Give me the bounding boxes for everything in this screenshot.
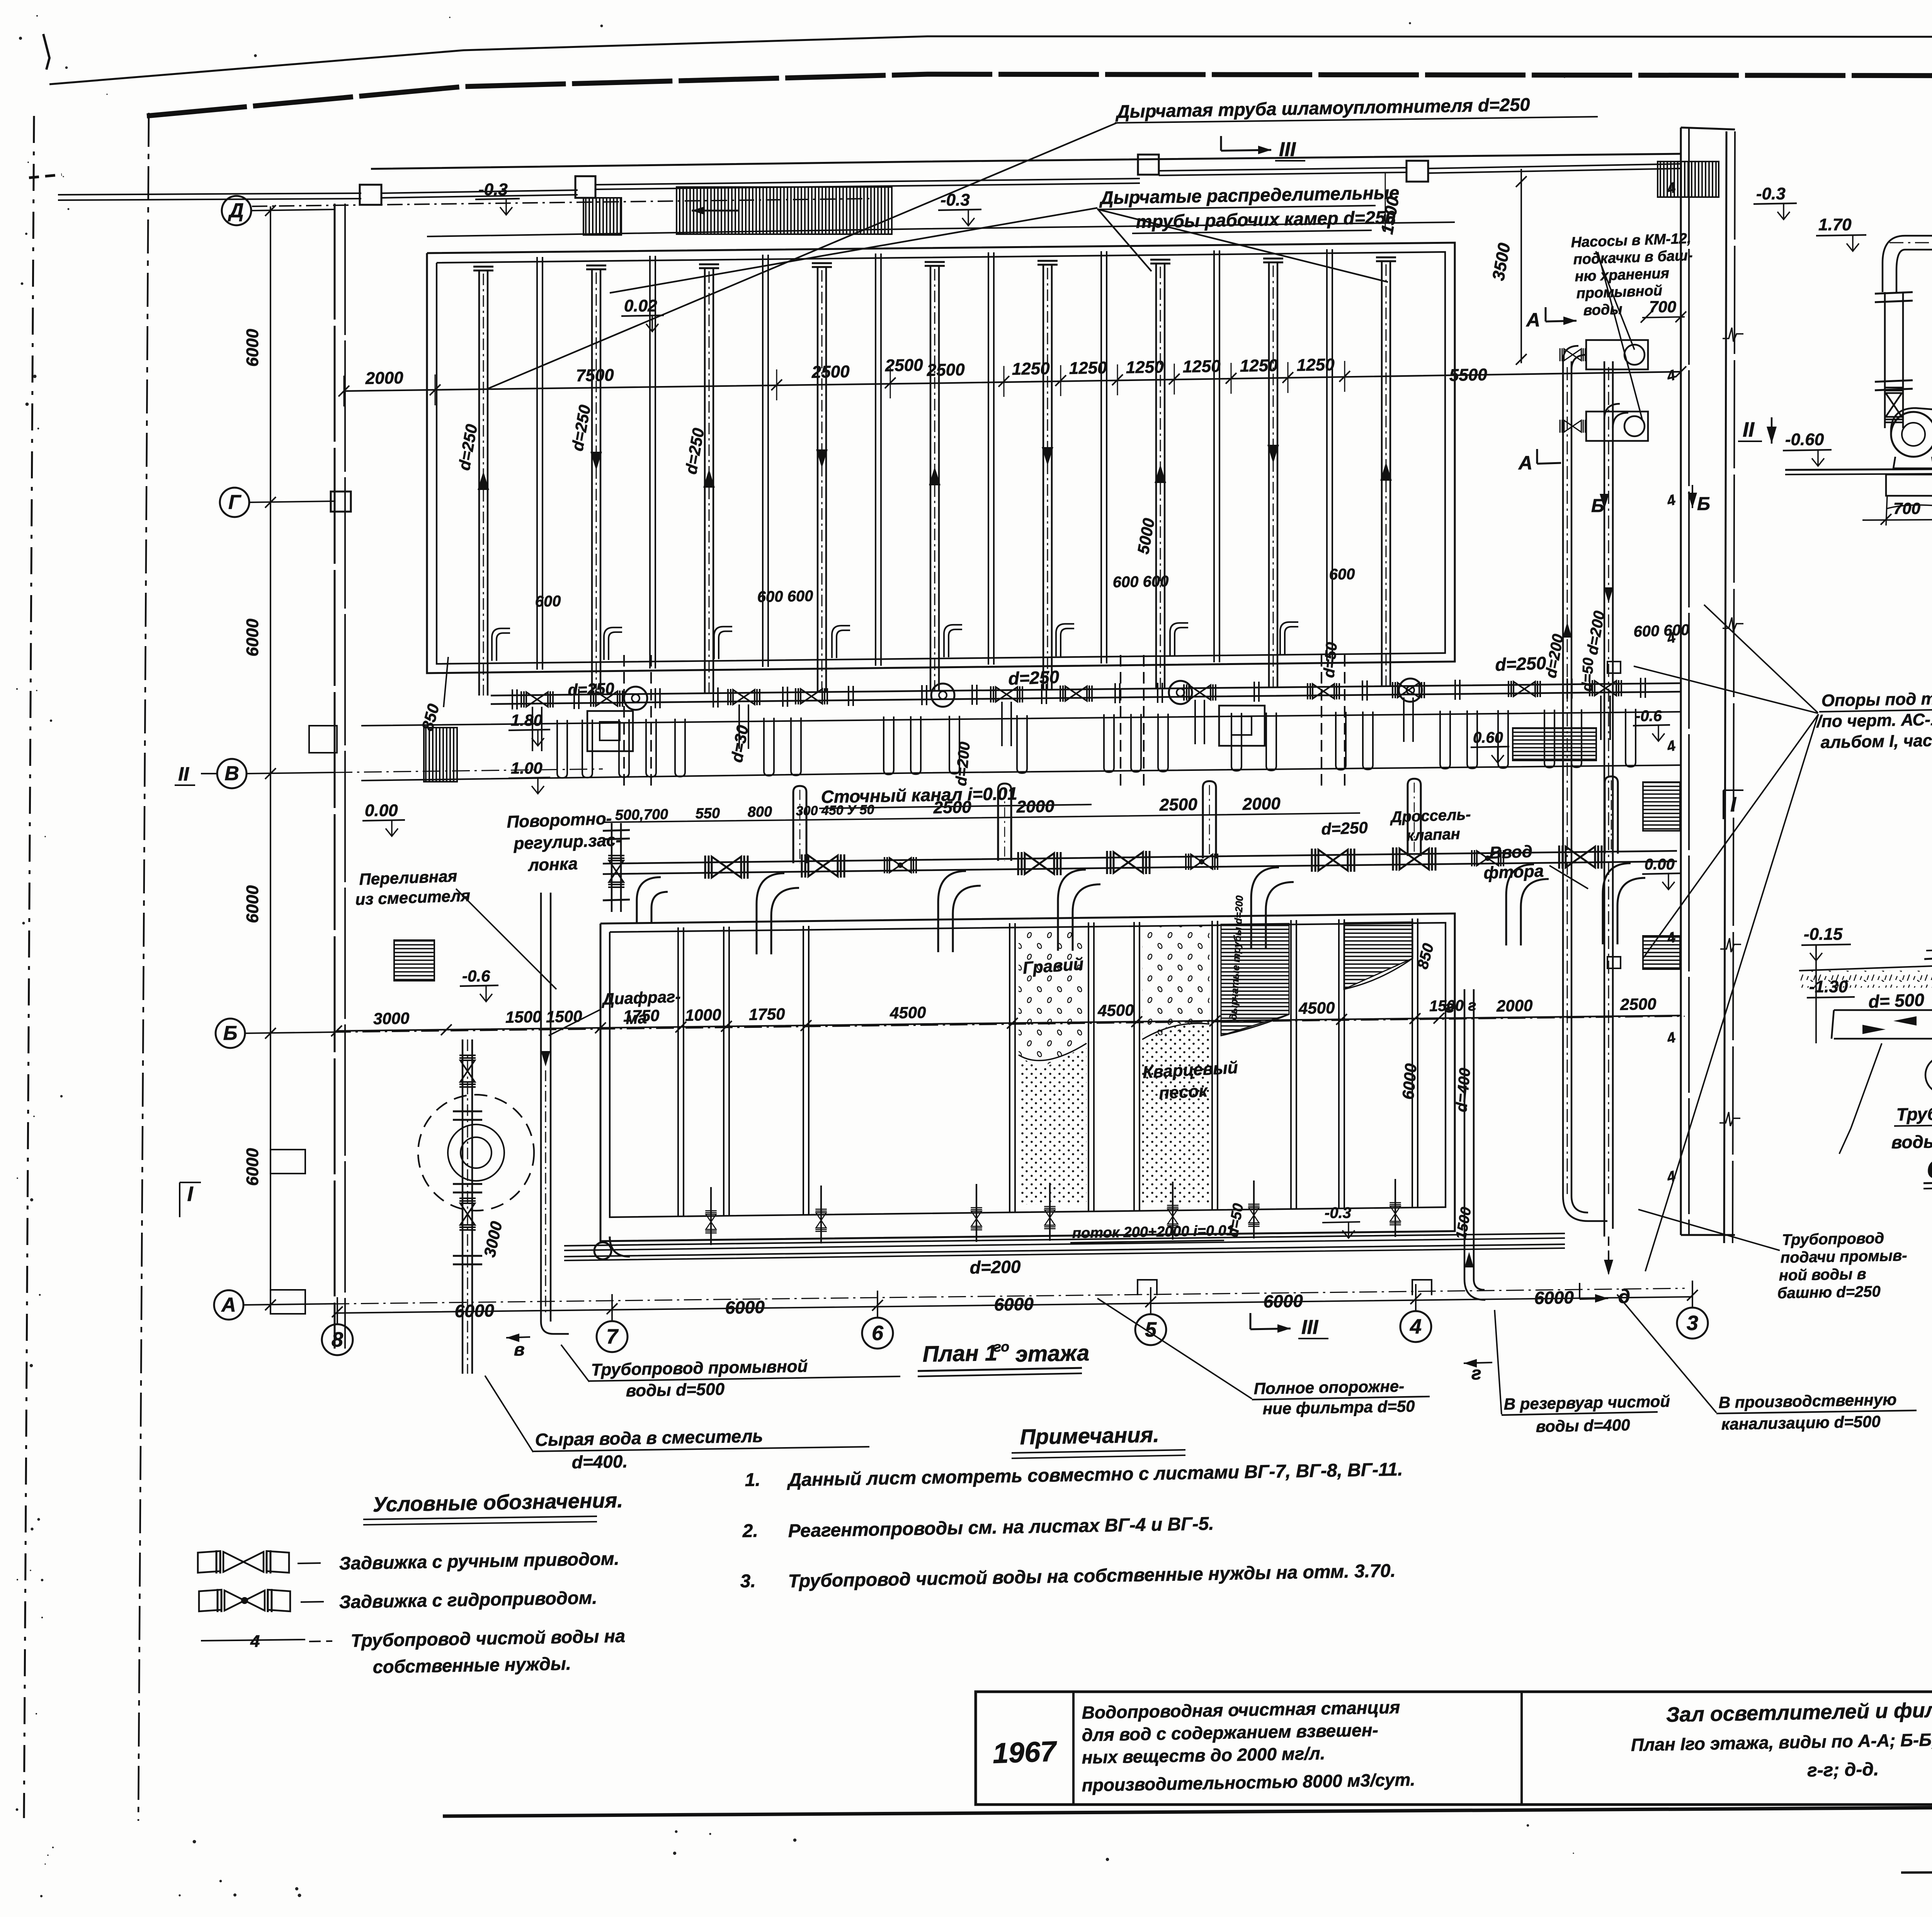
svg-text:2500: 2500 xyxy=(811,362,850,382)
svg-text:2500: 2500 xyxy=(1159,795,1197,815)
svg-text:600: 600 xyxy=(535,593,561,610)
svg-text:1500: 1500 xyxy=(505,1007,542,1026)
valve on row1 x=1390 xyxy=(521,691,553,708)
svg-text:1967: 1967 xyxy=(992,1735,1058,1769)
riser pipe d=250 cell 4 xyxy=(817,267,819,692)
upper bank lane divider 7 xyxy=(1213,250,1215,662)
svg-text:в: в xyxy=(514,1339,525,1359)
row2 left elbow into bank xyxy=(637,877,668,924)
lower bank divider x=1762 xyxy=(677,927,679,1216)
вид А-А left riser xyxy=(1884,292,1886,428)
valve on row1 x=2605 xyxy=(991,686,1022,703)
pipe coupling box 3 xyxy=(1138,155,1159,175)
svg-text:600 600: 600 600 xyxy=(1633,621,1690,640)
svg-text:Условные обозначения.: Условные обозначения. xyxy=(372,1489,623,1516)
bottom elbows of d200 pipes xyxy=(1563,1196,1607,1221)
axis В extension xyxy=(247,769,603,774)
riser pipe d=250 cell 2 xyxy=(591,269,593,694)
plan bottom wall segment xyxy=(1681,1234,1735,1236)
svg-text:3.: 3. xyxy=(740,1571,756,1592)
section mark III top xyxy=(1221,150,1271,151)
svg-text:В производственную: В производственную xyxy=(1718,1390,1897,1412)
svg-text:6000: 6000 xyxy=(243,329,262,367)
svg-text:В резервуар чистой: В резервуар чистой xyxy=(1503,1392,1670,1413)
svg-text:4500: 4500 xyxy=(1298,998,1335,1017)
small valves at filter bottoms xyxy=(705,1211,716,1233)
svg-text:-0.60: -0.60 xyxy=(1785,430,1824,449)
left protrusion box xyxy=(309,726,337,753)
svg-text:А: А xyxy=(221,1294,236,1316)
stair hatch right 3 xyxy=(1643,936,1680,969)
riser pipe d=250 cell 5 xyxy=(930,266,932,691)
axis Б long line xyxy=(245,1016,1685,1033)
axis Д line to plan xyxy=(252,199,869,206)
small wall boxes left xyxy=(270,1150,305,1174)
valve on row1 x=3645 xyxy=(1393,682,1424,698)
title block frame xyxy=(976,1692,1932,1805)
svg-text:0.60: 0.60 xyxy=(1473,729,1503,746)
stair hatch right 2 xyxy=(1643,782,1680,831)
svg-text:7500: 7500 xyxy=(576,366,614,385)
svg-text:Дроссель-: Дроссель- xyxy=(1389,806,1471,826)
hydraulic valve row2 x=3110 xyxy=(1186,854,1218,870)
legend clean water line symbol xyxy=(201,1640,305,1641)
вид А-А left volute xyxy=(1891,412,1932,457)
svg-text:4: 4 xyxy=(250,1632,260,1651)
svg-text:-0.6: -0.6 xyxy=(462,967,490,985)
svg-text:Трубопровод промывной: Трубопровод промывной xyxy=(591,1357,808,1379)
svg-text:700: 700 xyxy=(1893,499,1920,517)
stair hatch right 1 xyxy=(1513,728,1596,760)
svg-text:I: I xyxy=(187,1182,193,1206)
svg-text:d=50: d=50 xyxy=(1320,641,1340,679)
valve on row1 x=4155 xyxy=(1590,680,1621,696)
axis circle 5 xyxy=(1135,1314,1166,1345)
pump circle row1 x=1645 xyxy=(624,687,647,710)
lower bank divider x=2620 xyxy=(1009,923,1010,1212)
svg-text:Поворотно-: Поворотно- xyxy=(507,809,612,832)
svg-text:2500: 2500 xyxy=(926,360,965,380)
ventilation hatch block 1 xyxy=(583,198,621,235)
svg-text:Б: Б xyxy=(223,1022,238,1044)
pipe d400 down to reservoir xyxy=(1464,989,1466,1279)
svg-text:6000: 6000 xyxy=(243,885,262,923)
svg-text:1000: 1000 xyxy=(685,1005,721,1024)
svg-text:лонка: лонка xyxy=(527,854,578,875)
dim line row mid xyxy=(603,813,1360,822)
upper bank lane divider 8 xyxy=(1326,249,1328,661)
small elbow pipes at lane bottoms xyxy=(497,633,510,661)
svg-text:-0.3: -0.3 xyxy=(940,191,970,209)
pump1 top xyxy=(1586,340,1648,369)
svg-text:2500: 2500 xyxy=(933,798,971,817)
svg-text:канализацию d=500: канализацию d=500 xyxy=(1721,1412,1881,1433)
valve on row1 x=1570 xyxy=(591,691,622,707)
lower bank divider x=2942 xyxy=(1133,922,1135,1211)
svg-text:собственные нужды.: собственные нужды. xyxy=(372,1653,571,1677)
svg-text:воды d=400: воды d=400 xyxy=(1536,1416,1630,1436)
plan right pump-room inner wall xyxy=(1680,128,1682,1235)
svg-text:d=250: d=250 xyxy=(1321,818,1368,838)
svg-text:1.80: 1.80 xyxy=(511,711,543,729)
flanges left pipe xyxy=(453,1111,482,1112)
svg-text:d=250: d=250 xyxy=(568,679,615,699)
lateral pipes hatch cell D xyxy=(1344,922,1413,989)
elbow bottom left drain xyxy=(610,1237,630,1257)
svg-text:d= 500: d= 500 xyxy=(1868,990,1925,1012)
svg-text:Д: Д xyxy=(228,199,244,222)
svg-text:0.02: 0.02 xyxy=(624,296,657,315)
flange on vertical в-в xyxy=(1924,958,1932,959)
вид А-А foundations xyxy=(1886,475,1932,496)
riser pipe d=250 cell 7 xyxy=(1155,264,1157,689)
riser pipe d=250 cell 3 xyxy=(704,268,706,693)
bottom short line right xyxy=(1901,1869,1932,1873)
left vertical dimension line xyxy=(270,206,271,1305)
svg-text:d=200: d=200 xyxy=(969,1257,1021,1277)
pump circle row1 x=2440 xyxy=(931,684,954,707)
lower bank divider x=2086 xyxy=(803,926,804,1215)
axis circle 8 xyxy=(322,1324,353,1355)
svg-text:4500: 4500 xyxy=(889,1003,926,1022)
svg-text:III: III xyxy=(1279,138,1296,161)
support squares on pipe xyxy=(1607,662,1621,673)
riser pipe d=250 cell 6 xyxy=(1043,265,1044,690)
svg-text:ню хранения: ню хранения xyxy=(1575,265,1670,285)
plan right outer wall xyxy=(1724,131,1726,1243)
svg-text:6000: 6000 xyxy=(1263,1291,1303,1311)
svg-text:800: 800 xyxy=(747,804,772,820)
pump room pipes d=200 vertical xyxy=(1562,361,1564,1196)
svg-text:II: II xyxy=(1743,418,1755,441)
svg-text:Трубопровод промывной: Трубопровод промывной xyxy=(1896,1101,1932,1124)
svg-text:1.: 1. xyxy=(745,1470,760,1490)
lower bank divider x=3472 xyxy=(1338,919,1340,1208)
svg-text:ных веществ до 2000 мг/л.: ных веществ до 2000 мг/л. xyxy=(1082,1743,1325,1767)
manifold pipe row 1 xyxy=(491,683,1681,696)
svg-text:поток 200+2000 i=0.01: поток 200+2000 i=0.01 xyxy=(1072,1223,1235,1242)
svg-text:700: 700 xyxy=(1649,298,1676,316)
svg-text:этажа: этажа xyxy=(1015,1340,1090,1367)
svg-text:В: В xyxy=(224,762,239,785)
svg-text:4: 4 xyxy=(1410,1315,1422,1338)
svg-text:0.00: 0.00 xyxy=(1645,856,1675,873)
svg-text:го: го xyxy=(993,1339,1009,1355)
fine sand below gravel cell A xyxy=(1019,1045,1087,1204)
вид А-А foundation dims xyxy=(1862,519,1932,520)
upper bank dimension row xyxy=(344,372,1681,391)
svg-text:2.: 2. xyxy=(742,1521,758,1541)
drain channel bottom xyxy=(564,1233,1565,1246)
svg-text:d=400.: d=400. xyxy=(571,1451,628,1472)
svg-text:А: А xyxy=(1526,309,1540,331)
svg-text:6000: 6000 xyxy=(1534,1287,1574,1308)
pump circle row1 x=3650 xyxy=(1399,679,1422,702)
svg-text:1250: 1250 xyxy=(1240,356,1278,376)
svg-text:1.70: 1.70 xyxy=(1818,215,1852,234)
lower bank divider x=3662 xyxy=(1412,919,1413,1208)
fine sand cell B xyxy=(1142,1022,1209,1203)
svg-text:7: 7 xyxy=(606,1325,619,1348)
svg-text:4500: 4500 xyxy=(1097,1001,1134,1020)
wall line below row1 xyxy=(361,712,1681,726)
svg-text:2000: 2000 xyxy=(1242,794,1281,814)
top pipe from left xyxy=(58,193,361,195)
row2 dome stubs xyxy=(793,786,806,863)
svg-text:6000: 6000 xyxy=(243,619,262,657)
вид А-А left valve xyxy=(1885,388,1903,422)
svg-text:II: II xyxy=(178,763,189,785)
svg-text:2000: 2000 xyxy=(365,368,403,388)
upper bank lane divider 2 xyxy=(649,256,651,668)
svg-text:клапан: клапан xyxy=(1406,825,1461,844)
sheet border left dashed line 2 xyxy=(138,113,149,1821)
leader to sludge pipe xyxy=(488,123,1117,389)
valve on row1 x=3945 xyxy=(1509,681,1540,697)
svg-text:альбом I, часть III/: альбом I, часть III/ xyxy=(1820,730,1932,752)
pump2 xyxy=(1586,412,1648,441)
svg-text:Диафраг-: Диафраг- xyxy=(601,987,681,1008)
svg-text:6000: 6000 xyxy=(725,1297,765,1318)
valve on left pipe lower xyxy=(459,1198,476,1230)
III mark bottom xyxy=(1250,1313,1252,1329)
valve on left pipe upper xyxy=(459,1055,476,1087)
riser pipe d=250 cell 9 xyxy=(1381,261,1383,686)
svg-text:Ввод: Ввод xyxy=(1489,842,1533,862)
svg-text:-0.3: -0.3 xyxy=(1325,1204,1351,1221)
вид А-А left elbow xyxy=(1883,236,1905,292)
upper bank lane divider 3 xyxy=(762,255,764,667)
svg-text:III: III xyxy=(1301,1316,1319,1339)
axis circle 6 xyxy=(862,1318,893,1349)
svg-text:2000: 2000 xyxy=(1496,996,1533,1015)
svg-text:/по черт. АС-17.: /по черт. АС-17. xyxy=(1816,710,1932,731)
sheet border top thin xyxy=(49,36,1932,84)
svg-text:6000: 6000 xyxy=(243,1148,262,1186)
svg-text:Б: Б xyxy=(1697,494,1710,514)
leaders distribution pipes xyxy=(610,208,1097,293)
hydraulic valve row2 x=2330 xyxy=(884,857,916,873)
sheet border top heavy dashed xyxy=(147,74,1932,116)
upper bank outer rect xyxy=(427,243,1455,673)
svg-text:300 450 У 50: 300 450 У 50 xyxy=(796,802,874,818)
svg-text:башню d=250: башню d=250 xyxy=(1777,1283,1881,1302)
svg-text:Сырая вода в смеситель: Сырая вода в смеситель xyxy=(535,1426,763,1450)
svg-text:600 600: 600 600 xyxy=(1112,573,1168,591)
axis Г wall box xyxy=(331,492,351,512)
pipe coupling box xyxy=(360,185,381,205)
lateral pipes hatch cell C xyxy=(1221,924,1289,1036)
ventilation hatch block 2 with arrow xyxy=(677,187,892,234)
valve on row1 x=2100 xyxy=(796,688,827,704)
svg-text:Опоры под трубу: Опоры под трубу xyxy=(1821,689,1932,710)
svg-text:План 1: План 1 xyxy=(922,1340,998,1367)
box-in-box symbol 1 xyxy=(587,711,633,751)
svg-text:2000: 2000 xyxy=(1016,797,1054,816)
legend valve manual symbol xyxy=(198,1550,289,1573)
plan left wall axis 8 xyxy=(334,204,336,1349)
upper bank lane divider 4 xyxy=(875,253,876,666)
hatch block left wall xyxy=(424,728,457,782)
legend valve hydraulic symbol xyxy=(199,1589,290,1612)
svg-text:3000: 3000 xyxy=(373,1009,410,1028)
lower bank divider x=3348 xyxy=(1290,920,1292,1209)
svg-text:Трубопровод: Трубопровод xyxy=(1782,1230,1884,1249)
axis А long line xyxy=(243,1288,1685,1305)
valve on row1 x=3105 xyxy=(1184,684,1216,701)
plan top corridor wall xyxy=(371,154,1681,169)
svg-text:А: А xyxy=(1518,452,1532,474)
row2 elbows down to filters xyxy=(757,873,784,954)
svg-text:ной воды в: ной воды в xyxy=(1779,1266,1866,1284)
svg-text:регулир.зас-: регулир.зас- xyxy=(513,830,622,853)
valve on row1 x=2785 xyxy=(1060,685,1092,702)
upper bank lane divider 5 xyxy=(988,252,989,665)
axis circle В xyxy=(217,759,247,788)
svg-text:1250: 1250 xyxy=(1012,359,1050,379)
pump circle row1 x=3055 xyxy=(1169,681,1192,704)
svg-text:Г: Г xyxy=(228,491,241,514)
hydraulic valve row2 x=3850 xyxy=(1472,850,1503,866)
hanging stub pipes below row1 xyxy=(557,720,567,778)
axis circle Б xyxy=(216,1019,245,1048)
axis circle А xyxy=(214,1290,243,1320)
manifold row2 pipes xyxy=(603,851,1677,864)
lower bank divider x=2824 xyxy=(1088,922,1089,1211)
upper bank lane divider 6 xyxy=(1100,251,1102,663)
svg-text:1250: 1250 xyxy=(1296,355,1335,375)
plan top corridor inner line xyxy=(427,222,1455,236)
svg-text:6: 6 xyxy=(872,1322,884,1345)
svg-text:1.00: 1.00 xyxy=(511,759,543,777)
big pipe d500 xyxy=(1832,1010,1932,1039)
riser pipe d=250 cell 1 xyxy=(478,270,480,696)
вид А-А top pipe xyxy=(1905,235,1932,237)
svg-text:г: г xyxy=(1445,997,1454,1016)
svg-text:1750: 1750 xyxy=(623,1006,660,1025)
svg-text:2500: 2500 xyxy=(884,356,923,375)
axis circle Д xyxy=(222,196,251,225)
pipe coupling box 2 xyxy=(575,176,595,198)
foundation marks bottom xyxy=(1138,1280,1157,1295)
svg-text:1250: 1250 xyxy=(1126,357,1164,377)
pipe arrows xyxy=(1563,622,1572,638)
svg-text:550: 550 xyxy=(695,805,720,822)
pipe coupling box 4 xyxy=(1406,161,1428,182)
svg-text:воды d=500: воды d=500 xyxy=(626,1380,725,1400)
svg-text:d=250: d=250 xyxy=(1495,653,1547,675)
svg-text:6000: 6000 xyxy=(994,1294,1034,1315)
sheet bottom line xyxy=(443,1804,1932,1816)
valve on row1 x=3425 xyxy=(1308,683,1339,699)
riser pipe d=250 cell 8 xyxy=(1268,262,1270,687)
svg-text:г-г; д-д.: г-г; д-д. xyxy=(1807,1759,1879,1781)
stairs hatch left xyxy=(394,940,434,981)
svg-text:Переливная: Переливная xyxy=(359,867,457,888)
axis circle 4 xyxy=(1400,1311,1431,1342)
svg-text:1250: 1250 xyxy=(1069,358,1107,378)
svg-text:-0.3: -0.3 xyxy=(478,180,508,199)
svg-text:0.00: 0.00 xyxy=(365,801,398,820)
svg-text:6000: 6000 xyxy=(1399,1063,1420,1100)
svg-text:-1.30: -1.30 xyxy=(1809,977,1848,996)
svg-text:ние фильтра d=50: ние фильтра d=50 xyxy=(1262,1397,1415,1418)
upper bank lane divider 1 xyxy=(536,257,538,670)
svg-text:3: 3 xyxy=(1687,1311,1698,1335)
gravel stipple region cell B xyxy=(1142,925,1209,1039)
vertical pipe d250 left xyxy=(462,1039,464,1374)
svg-text:-0.6: -0.6 xyxy=(1635,708,1662,725)
axis circle Г xyxy=(220,488,249,517)
valve on row1 x=1925 xyxy=(728,689,760,705)
svg-text:600 600: 600 600 xyxy=(757,587,813,606)
sheet border left dashed line 1 xyxy=(24,116,34,1818)
row2 big valves xyxy=(705,856,748,879)
svg-text:8: 8 xyxy=(332,1328,343,1351)
vertical valve chain left of row2 xyxy=(611,823,613,912)
top-left corner tick xyxy=(43,34,49,70)
flange pairs on row1 pipe xyxy=(512,689,513,709)
svg-text:песок: песок xyxy=(1158,1081,1209,1103)
dashed stubs xyxy=(623,655,625,790)
scan specks xyxy=(30,1570,31,1571)
svg-text:подачи промыв-: подачи промыв- xyxy=(1780,1247,1907,1266)
svg-text:-0.3: -0.3 xyxy=(1756,184,1786,203)
circle А в-в xyxy=(1925,1056,1932,1094)
lower bank divider x=3144 xyxy=(1211,921,1213,1210)
gravel stipple region cell A xyxy=(1019,927,1087,1067)
second wall line xyxy=(361,765,1681,781)
svg-text:1250: 1250 xyxy=(1182,357,1221,376)
svg-text:-0.15: -0.15 xyxy=(1804,925,1843,944)
svg-text:d=250: d=250 xyxy=(1008,667,1060,689)
axis circle 7 xyxy=(597,1321,628,1352)
svg-text:6000: 6000 xyxy=(454,1300,495,1321)
svg-text:600: 600 xyxy=(1329,566,1355,583)
wall hatch right xyxy=(1658,162,1719,197)
box-in-box symbol 2 xyxy=(1219,706,1265,746)
svg-text:воды.: воды. xyxy=(1891,1131,1932,1152)
svg-text:5500: 5500 xyxy=(1449,365,1487,385)
вид А-А ground line xyxy=(1785,468,1932,470)
second pipe промывной воды xyxy=(540,893,542,1322)
svg-text:2500: 2500 xyxy=(1620,995,1656,1014)
svg-text:1750: 1750 xyxy=(749,1005,785,1024)
смеситель dashed circle xyxy=(418,1095,534,1211)
lower bank dim row xyxy=(337,1015,1681,1031)
axis circle 3 xyxy=(1677,1308,1708,1339)
svg-text:Сечение в-в: Сечение в-в xyxy=(1927,1152,1932,1184)
vertical drops below row1 valves xyxy=(532,707,533,751)
svg-text:d=50: d=50 xyxy=(1579,657,1597,692)
lower bank divider x=1880 xyxy=(723,927,724,1216)
ground line в-в xyxy=(1799,966,1932,971)
bottom dim row 6000 labels xyxy=(337,1297,1692,1313)
lower bank outer rect xyxy=(600,913,1455,1241)
svg-text:фтора: фтора xyxy=(1483,862,1544,883)
svg-text:I: I xyxy=(1730,793,1736,816)
svg-text:Примечания.: Примечания. xyxy=(1020,1422,1159,1449)
svg-text:Полное опорожне-: Полное опорожне- xyxy=(1253,1377,1404,1398)
